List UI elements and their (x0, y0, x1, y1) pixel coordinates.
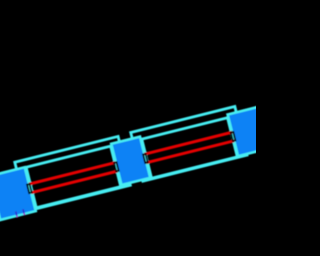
pad P3 (228, 106, 274, 157)
resistor element R1 (red lines) (29, 163, 115, 185)
pad P2 (111, 137, 150, 185)
terminal cap R2 right (231, 132, 236, 141)
resistor element R2 (red lines) (144, 132, 232, 154)
pad P1 (0, 167, 36, 220)
terminal cap R2 left (143, 154, 148, 163)
terminal cap R1 right (114, 162, 119, 171)
body outline U1 (26, 146, 121, 208)
pin tick T1 (15, 211, 18, 216)
terminal cap R1 left (27, 184, 32, 193)
pin tick T2 (22, 209, 25, 214)
body outline U2 (142, 118, 238, 179)
courtyard outline U1 (15, 136, 131, 211)
courtyard outline U2 (131, 107, 247, 182)
